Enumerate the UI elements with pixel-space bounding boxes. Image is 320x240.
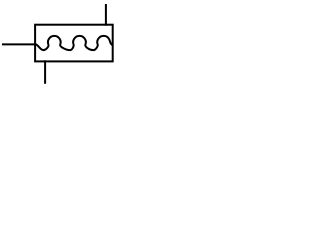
- wire top terminal: [105, 4, 107, 26]
- wire left terminal: [2, 43, 36, 45]
- wire bottom terminal: [44, 60, 46, 84]
- wavy element (3-bump heater wave): [36, 36, 113, 50]
- component box (heating element body): [35, 25, 113, 62]
